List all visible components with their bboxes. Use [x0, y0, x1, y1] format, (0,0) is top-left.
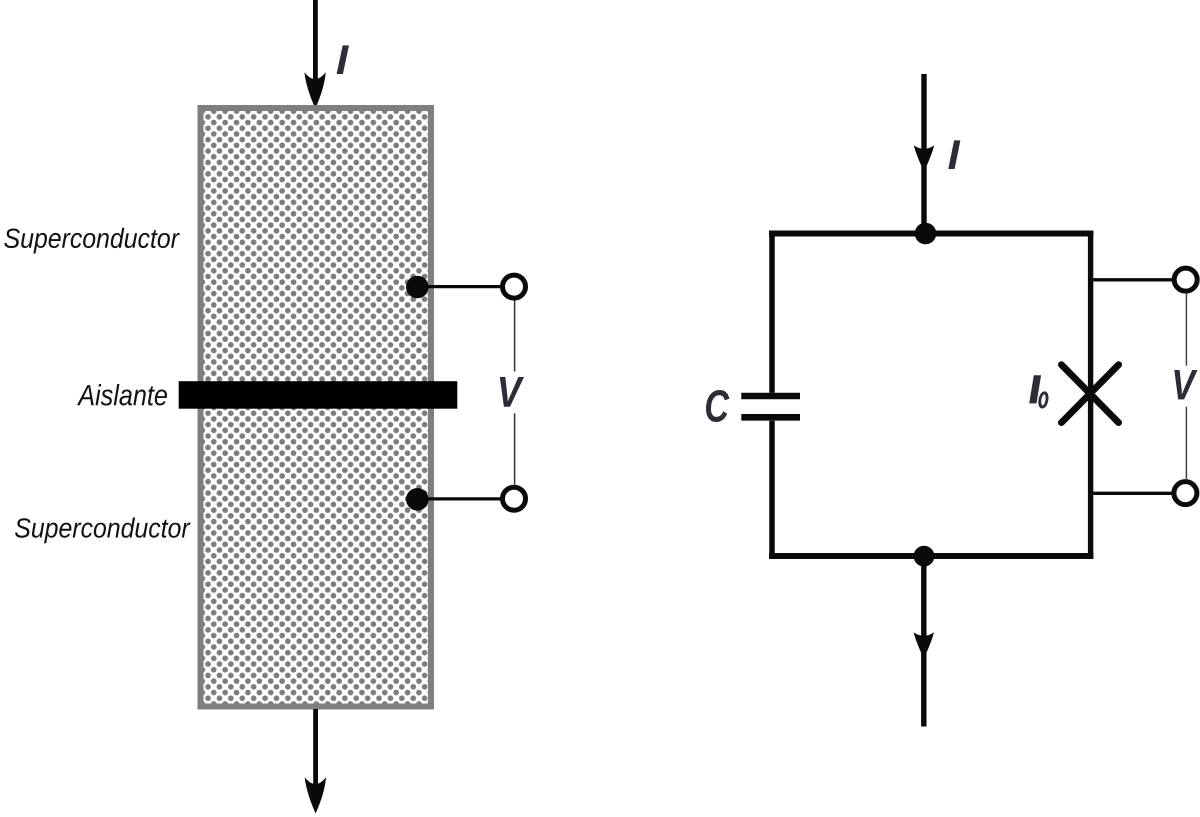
- wire bottom rail (right circuit): [769, 553, 1093, 559]
- capacitor C top plate: [741, 393, 800, 400]
- probe terminal upper open circle (right circuit): [1174, 268, 1197, 291]
- wire upper probe branch (right circuit): [1091, 278, 1174, 281]
- wire top current lead (right circuit): [921, 74, 926, 234]
- label V (left figure): [500, 377, 524, 407]
- arrow current I out of node (right circuit): [914, 632, 934, 658]
- probe terminal upper open circle (left figure): [503, 275, 526, 298]
- wire bottom current lead (left figure): [313, 709, 318, 790]
- arrow current I out of junction (left figure): [305, 777, 326, 813]
- wire left branch upper (right circuit): [769, 231, 775, 393]
- superconductor block (dotted body): [201, 108, 432, 707]
- probe terminal lower open circle (left figure): [503, 487, 526, 510]
- capacitor C bottom plate: [741, 414, 800, 421]
- wire right branch (right circuit): [1088, 231, 1093, 560]
- label I0: [1029, 375, 1041, 403]
- wire voltmeter lead upper (left figure): [514, 301, 516, 372]
- wire bottom current lead (right circuit): [921, 556, 926, 727]
- node junction top (right circuit): [915, 223, 937, 245]
- probe terminal lower open circle (right circuit): [1174, 482, 1197, 505]
- terminal node upper (left figure): [406, 276, 429, 299]
- arrow current I into junction (left figure): [304, 72, 325, 108]
- label Superconductor (bottom): [15, 518, 191, 544]
- label C: [706, 390, 729, 422]
- label I (right circuit): [948, 140, 960, 169]
- node junction bottom (right circuit): [914, 546, 935, 567]
- wire lower probe branch (right circuit): [1091, 492, 1174, 495]
- arrow current I into node (right circuit): [914, 145, 934, 171]
- wire voltmeter lead upper (right circuit): [1185, 294, 1187, 366]
- insulator bar (Aislante barrier): [179, 381, 458, 409]
- wire voltmeter lead lower (right circuit): [1185, 407, 1187, 479]
- terminal node lower (left figure): [406, 488, 429, 511]
- wire upper terminal to probe (left figure): [417, 285, 503, 288]
- label Aislante: [77, 384, 167, 406]
- wire top current lead (left figure): [313, 0, 318, 88]
- label V (right circuit): [1174, 370, 1197, 399]
- wire top rail (right circuit): [769, 231, 1093, 237]
- wire lower terminal to probe (left figure): [417, 497, 503, 500]
- label I (left figure): [337, 45, 349, 74]
- wire voltmeter lead lower (left figure): [514, 413, 516, 484]
- josephson junction X (I0): [1061, 365, 1118, 423]
- wire left branch lower (right circuit): [769, 421, 775, 559]
- label Superconductor (top): [4, 228, 180, 254]
